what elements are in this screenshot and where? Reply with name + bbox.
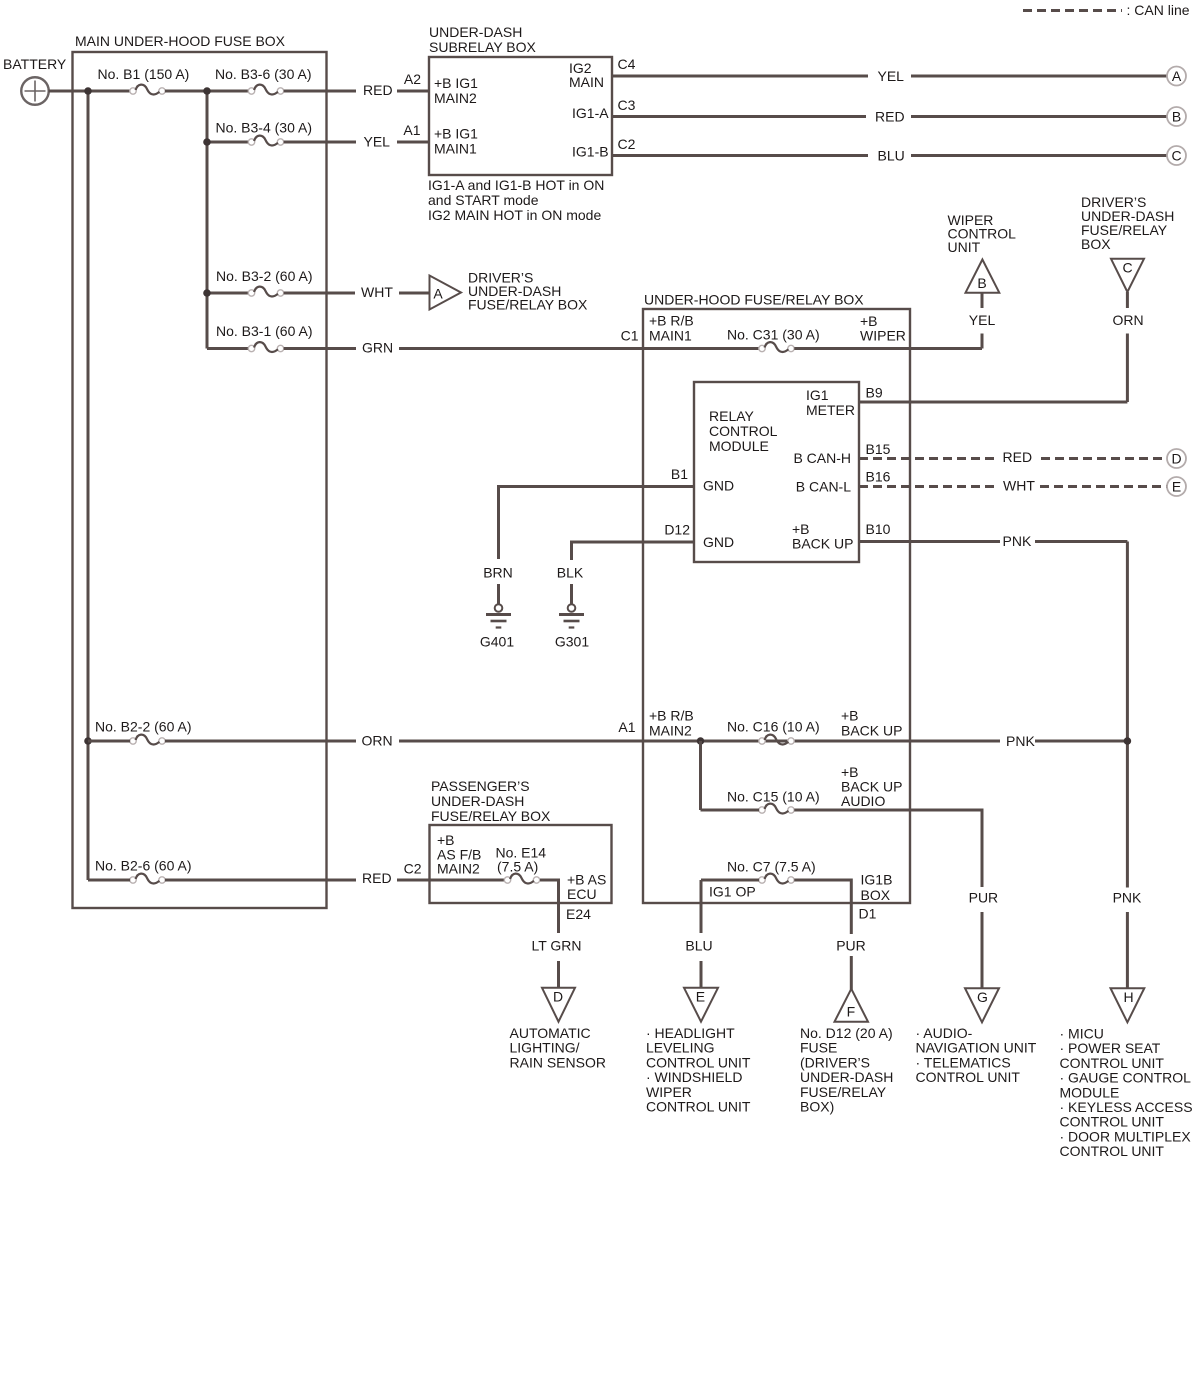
svg-text:C4: C4	[618, 56, 636, 72]
pin label IG1B BOX	[861, 872, 893, 904]
pin label +B IG1 MAIN2	[434, 75, 478, 106]
svg-text:G401: G401	[480, 634, 514, 650]
svg-text:B9: B9	[866, 385, 883, 401]
wire battery bus to B2-2	[88, 740, 130, 743]
svg-text:IG1-A and IG1-B HOT in ON: IG1-A and IG1-B HOT in ON	[428, 177, 604, 193]
wire battery to fuse B1	[49, 90, 130, 93]
svg-text:ORN: ORN	[1112, 312, 1143, 328]
wire C16 bus down to C15	[699, 741, 702, 810]
svg-text:B: B	[1172, 109, 1181, 125]
svg-text:B: B	[977, 275, 986, 291]
svg-text:PNK: PNK	[1006, 733, 1035, 749]
svg-text:B15: B15	[866, 441, 891, 457]
wire PNK to right bus	[1035, 540, 1127, 543]
svg-text:D: D	[553, 988, 563, 1004]
svg-text:CONTROL UNIT: CONTROL UNIT	[1060, 1143, 1165, 1159]
ground G301	[555, 604, 589, 649]
svg-text:· MICU: · MICU	[1060, 1026, 1104, 1042]
svg-text:CONTROL UNIT: CONTROL UNIT	[1060, 1055, 1165, 1071]
svg-text:C1: C1	[621, 328, 639, 344]
wire RED to fuse E14	[397, 879, 504, 882]
wire battery bus to B2-6	[88, 879, 130, 882]
svg-text:UNDER-DASH: UNDER-DASH	[431, 793, 524, 809]
wire YEL to connector A circle	[911, 75, 1167, 78]
svg-text:LT GRN: LT GRN	[531, 938, 581, 954]
wire B3-2 to WHT label	[284, 292, 355, 295]
svg-text:FUSE: FUSE	[800, 1040, 837, 1056]
wire PNK to right bus junction	[1035, 740, 1127, 743]
svg-text:A: A	[433, 286, 443, 302]
wire PUR to triangle G	[981, 912, 984, 988]
wire right bus down to H	[1126, 542, 1129, 888]
svg-text:BATTERY: BATTERY	[3, 56, 67, 72]
wire stub below triangle B	[981, 293, 984, 308]
wire ORN to PNK row	[399, 740, 1000, 743]
wire YEL to subrelay pin A1	[397, 141, 429, 144]
svg-text:G: G	[977, 989, 988, 1005]
fuse No. C31 (30 A)	[727, 327, 820, 352]
svg-text:WIPER: WIPER	[860, 328, 906, 344]
node junction battery bus	[84, 87, 92, 95]
svg-text:A: A	[1172, 68, 1182, 84]
svg-text:E: E	[696, 988, 705, 1004]
wire B CAN-H dashed to RED	[859, 457, 995, 460]
pin label IG2 MAIN	[569, 60, 604, 90]
svg-text:ECU: ECU	[567, 886, 597, 902]
svg-text:No. B3-2 (60 A): No. B3-2 (60 A)	[216, 268, 313, 284]
svg-text:PNK: PNK	[1113, 890, 1142, 906]
svg-text:· AUDIO-: · AUDIO-	[916, 1025, 973, 1041]
wire junction to fuse B3-4	[207, 141, 248, 144]
wire D12 GND	[572, 542, 695, 560]
node junction B2-2	[84, 737, 92, 745]
svg-text:RED: RED	[363, 82, 393, 98]
svg-text:RAIN SENSOR: RAIN SENSOR	[510, 1054, 606, 1070]
svg-text:BOX: BOX	[861, 887, 891, 903]
svg-text:B CAN-H: B CAN-H	[793, 450, 851, 466]
svg-text:· HEADLIGHT: · HEADLIGHT	[646, 1025, 735, 1041]
svg-text:D: D	[1171, 451, 1181, 467]
svg-text:MODULE: MODULE	[1060, 1084, 1120, 1100]
wire dashed RED to connector D circle	[1041, 457, 1167, 460]
svg-text:MAIN1: MAIN1	[649, 328, 692, 344]
svg-text:UNDER-DASH: UNDER-DASH	[800, 1069, 893, 1085]
wire B1 GND	[499, 487, 695, 560]
connector circle B	[1167, 107, 1186, 126]
wire B2-6 to RED	[165, 879, 356, 882]
svg-text:· POWER SEAT: · POWER SEAT	[1060, 1040, 1161, 1056]
svg-text:C2: C2	[618, 136, 636, 152]
wire RED to connector B circle	[911, 115, 1167, 118]
wire stub below triangle C	[1126, 292, 1129, 308]
wire E14 to E24	[540, 880, 559, 933]
svg-text:IG2 MAIN HOT in ON mode: IG2 MAIN HOT in ON mode	[428, 207, 601, 223]
svg-text:MAIN2: MAIN2	[434, 90, 477, 106]
svg-text:LIGHTING/: LIGHTING/	[510, 1040, 580, 1056]
svg-text:No. C7 (7.5 A): No. C7 (7.5 A)	[727, 859, 816, 875]
wire C15 row left	[701, 809, 760, 812]
fuse No. B2-6 (60 A)	[95, 858, 192, 884]
connector H triangle	[1111, 988, 1145, 1022]
connector F triangle	[835, 989, 869, 1022]
svg-text:+B R/B: +B R/B	[649, 708, 694, 724]
svg-text:B1: B1	[671, 466, 688, 482]
label MICU POWER SEAT etc	[1060, 1026, 1193, 1160]
svg-text:B10: B10	[866, 521, 891, 537]
wire C7 row right to D1	[794, 880, 851, 934]
label WIPER CONTROL UNIT	[948, 212, 1017, 255]
svg-text:WHT: WHT	[361, 284, 393, 300]
svg-text:· KEYLESS ACCESS: · KEYLESS ACCESS	[1060, 1099, 1193, 1115]
wire BLU to triangle E	[700, 961, 703, 988]
svg-text:UNIT: UNIT	[948, 239, 981, 255]
svg-text:BRN: BRN	[483, 565, 513, 581]
label AUTOMATIC LIGHTING/RAIN SENSOR	[510, 1025, 606, 1070]
svg-text:AUDIO: AUDIO	[841, 793, 885, 809]
connector B triangle	[966, 260, 1000, 293]
svg-text:IG1 OP: IG1 OP	[709, 884, 756, 900]
svg-text:NAVIGATION UNIT: NAVIGATION UNIT	[916, 1040, 1037, 1056]
fuse No. B3-4 (30 A)	[216, 120, 313, 146]
wire BLK to ground	[570, 584, 573, 604]
svg-text:BLU: BLU	[685, 938, 712, 954]
wire B3-6 to RED label	[284, 90, 356, 93]
wire B CAN-L dashed to WHT	[859, 485, 996, 488]
fuse No. B3-1 (60 A)	[216, 323, 313, 352]
svg-text:CONTROL UNIT: CONTROL UNIT	[1060, 1114, 1165, 1130]
svg-text:GRN: GRN	[362, 340, 393, 356]
wire B1 to B3-6	[165, 90, 248, 93]
node junction C16 bus	[697, 737, 705, 745]
svg-text:PNK: PNK	[1003, 533, 1032, 549]
svg-text:No. B2-2 (60 A): No. B2-2 (60 A)	[95, 719, 192, 735]
connector circle C	[1167, 146, 1186, 165]
svg-text:G301: G301	[555, 634, 589, 650]
wire B2-2 to ORN	[165, 740, 356, 743]
svg-text:CONTROL UNIT: CONTROL UNIT	[646, 1054, 751, 1070]
svg-text:IG1-B: IG1-B	[572, 144, 609, 160]
wire junction to fuse B3-1	[207, 347, 248, 350]
svg-text:RED: RED	[875, 109, 905, 125]
connector circle E	[1167, 477, 1186, 496]
svg-text:CONTROL: CONTROL	[709, 423, 778, 439]
svg-text:BLU: BLU	[878, 148, 905, 164]
fuse No. B3-2 (60 A)	[216, 268, 313, 296]
svg-text:C: C	[1122, 260, 1132, 276]
node junction B3 bus row1	[203, 87, 211, 95]
box MAIN UNDER-HOOD FUSE BOX	[73, 33, 327, 908]
svg-text:H: H	[1123, 989, 1133, 1005]
svg-text:YEL: YEL	[969, 312, 996, 328]
svg-text:· TELEMATICS: · TELEMATICS	[916, 1054, 1011, 1070]
connector D triangle	[542, 988, 575, 1022]
wire WHT to connector A	[399, 292, 429, 295]
svg-text:E24: E24	[566, 906, 591, 922]
svg-text:F: F	[847, 1003, 856, 1019]
battery BATTERY	[3, 56, 67, 105]
svg-text:· GAUGE CONTROL: · GAUGE CONTROL	[1060, 1070, 1192, 1086]
svg-text:UNDER-DASH: UNDER-DASH	[429, 24, 522, 40]
svg-text:BLK: BLK	[557, 565, 584, 581]
svg-text:BACK UP: BACK UP	[792, 536, 853, 552]
pin label +B BACK UP	[792, 521, 853, 552]
svg-text:+B: +B	[841, 708, 859, 724]
wire ORN down to B9 row	[1126, 334, 1129, 403]
svg-text:No. B1 (150 A): No. B1 (150 A)	[98, 66, 190, 82]
svg-text:CONTROL UNIT: CONTROL UNIT	[646, 1099, 751, 1115]
svg-text:No. B3-1 (60 A): No. B3-1 (60 A)	[216, 323, 313, 339]
svg-text:YEL: YEL	[364, 134, 391, 150]
connector G triangle	[965, 988, 999, 1022]
wire BRN to ground	[497, 584, 500, 604]
svg-text:IG1: IG1	[806, 387, 829, 403]
vertical bus at x=88	[87, 91, 90, 880]
svg-text:RED: RED	[362, 870, 392, 886]
svg-text:· WINDSHIELD: · WINDSHIELD	[646, 1069, 742, 1085]
svg-text:PUR: PUR	[836, 938, 866, 954]
svg-text:B16: B16	[866, 469, 891, 485]
svg-text:METER: METER	[806, 402, 855, 418]
svg-text:(7.5 A): (7.5 A)	[497, 859, 538, 875]
svg-text:UNDER-HOOD FUSE/RELAY BOX: UNDER-HOOD FUSE/RELAY BOX	[644, 292, 864, 308]
svg-text:MAIN2: MAIN2	[649, 723, 692, 739]
wire PUR to triangle F	[850, 956, 853, 990]
svg-text:A1: A1	[403, 122, 420, 138]
pin label +B IG1 MAIN1	[434, 126, 478, 157]
wire B3-4 to YEL label	[284, 141, 356, 144]
box UNDER-HOOD FUSE/RELAY BOX	[643, 292, 910, 904]
svg-text:No. C16 (10 A): No. C16 (10 A)	[727, 719, 820, 735]
pin label +B R/B MAIN1	[649, 313, 694, 344]
svg-text:SUBRELAY BOX: SUBRELAY BOX	[429, 39, 537, 55]
wire C3 to RED	[612, 115, 866, 118]
svg-text:+B IG1: +B IG1	[434, 75, 478, 91]
svg-text:YEL: YEL	[878, 68, 905, 84]
wire B10 to PNK	[859, 540, 1000, 543]
svg-text:: CAN line: : CAN line	[1127, 2, 1190, 18]
note IG1 hot modes	[428, 177, 604, 223]
label No. D12 (20 A) FUSE	[800, 1025, 893, 1115]
pin label +B BACK UP AUDIO	[841, 764, 902, 809]
svg-text:E: E	[1172, 479, 1181, 495]
pin label +B AS ECU	[567, 872, 606, 903]
svg-text:D1: D1	[859, 906, 877, 922]
svg-text:FUSE/RELAY: FUSE/RELAY	[800, 1084, 887, 1100]
svg-text:No. C15 (10 A): No. C15 (10 A)	[727, 789, 820, 805]
pin label +B R/B MAIN2	[649, 708, 694, 739]
svg-text:No. B2-6 (60 A): No. B2-6 (60 A)	[95, 858, 192, 874]
svg-text:FUSE/RELAY BOX: FUSE/RELAY BOX	[468, 297, 588, 313]
svg-text:PASSENGER’S: PASSENGER’S	[431, 778, 530, 794]
svg-text:BOX: BOX	[1081, 236, 1111, 252]
fuse No. C16 (10 A)	[727, 719, 820, 745]
fuse B1 No. B1 (150 A)	[98, 66, 190, 94]
fuse No. B3-6 (30 A)	[215, 66, 312, 94]
svg-text:B CAN-L: B CAN-L	[796, 479, 851, 495]
svg-text:MAIN1: MAIN1	[434, 141, 477, 157]
svg-text:RELAY: RELAY	[709, 408, 755, 424]
node junction B3 bus row2	[203, 138, 211, 146]
pin label +B BACK UP (C16)	[841, 708, 902, 739]
connector A triangle	[430, 276, 462, 310]
vertical bus at x=207	[206, 91, 209, 349]
label AUDIO-NAVIGATION TELEMATICS	[916, 1025, 1037, 1085]
wire dashed WHT to connector E circle	[1040, 485, 1167, 488]
box PASSENGER'S UNDER-DASH FUSE/RELAY BOX	[430, 778, 612, 903]
fuse No. E14 (7.5 A)	[496, 845, 547, 884]
svg-text:C2: C2	[404, 861, 422, 877]
svg-text:No. B3-6 (30 A): No. B3-6 (30 A)	[215, 66, 312, 82]
wire GRN to under-hood box C1 and fuse C31	[399, 347, 759, 350]
svg-text:FUSE/RELAY BOX: FUSE/RELAY BOX	[431, 808, 551, 824]
svg-text:ORN: ORN	[362, 733, 393, 749]
fuse No. B2-2 (60 A)	[95, 719, 192, 745]
ground G401	[480, 604, 514, 649]
wire BLU to connector C circle	[911, 154, 1167, 157]
node junction right bus	[1124, 737, 1132, 745]
wire IG1 OP down	[700, 880, 703, 933]
svg-text:C3: C3	[618, 97, 636, 113]
wire RED to subrelay pin A2	[397, 90, 429, 93]
svg-text:No. B3-4 (30 A): No. B3-4 (30 A)	[216, 120, 313, 136]
wire C31 to wiper control unit	[794, 347, 982, 350]
svg-text:MODULE: MODULE	[709, 438, 769, 454]
box UNDER-DASH SUBRELAY BOX	[429, 24, 612, 175]
fuse No. C15 (10 A)	[727, 789, 820, 814]
box RELAY CONTROL MODULE	[694, 382, 859, 562]
svg-text:(DRIVER’S: (DRIVER’S	[800, 1054, 870, 1070]
svg-text:RED: RED	[1003, 449, 1033, 465]
connector circle D	[1167, 449, 1186, 468]
wire C2 to BLU	[612, 154, 868, 157]
svg-text:No. C31 (30 A): No. C31 (30 A)	[727, 327, 820, 343]
wire PNK to triangle H	[1126, 912, 1129, 988]
pin label +B AS F/B MAIN2	[437, 832, 481, 877]
svg-text:MAIN2: MAIN2	[437, 861, 480, 877]
svg-text:AUTOMATIC: AUTOMATIC	[510, 1025, 591, 1041]
CAN line legend	[1023, 2, 1190, 18]
svg-text:GND: GND	[703, 478, 734, 494]
svg-text:IG1-A: IG1-A	[572, 105, 609, 121]
label DRIVER'S UNDER-DASH FUSE/RELAY BOX (C)	[1081, 194, 1174, 252]
svg-text:GND: GND	[703, 534, 734, 550]
fuse No. C7 (7.5 A)	[727, 859, 816, 884]
svg-text:and START mode: and START mode	[428, 192, 539, 208]
svg-text:IG1B: IG1B	[861, 872, 893, 888]
connector E triangle	[684, 988, 718, 1022]
pin label IG1 METER	[806, 387, 855, 418]
svg-text:MAIN: MAIN	[569, 74, 604, 90]
wire B9 row	[859, 401, 1127, 404]
svg-text:LEVELING: LEVELING	[646, 1040, 714, 1056]
label DRIVER'S UNDER-DASH FUSE/RELAY BOX (A)	[468, 270, 588, 313]
svg-text:+B R/B: +B R/B	[649, 313, 694, 329]
svg-text:No. D12 (20 A): No. D12 (20 A)	[800, 1025, 893, 1041]
svg-text:C: C	[1171, 148, 1181, 164]
svg-text:WIPER: WIPER	[646, 1084, 692, 1100]
connector circle A	[1167, 67, 1186, 86]
svg-text:BACK UP: BACK UP	[841, 723, 902, 739]
svg-text:CONTROL UNIT: CONTROL UNIT	[916, 1069, 1021, 1085]
wire B3-1 to GRN label	[284, 347, 356, 350]
svg-text:D12: D12	[664, 522, 690, 538]
connector C triangle	[1111, 259, 1144, 292]
label HEADLIGHT LEVELING / WINDSHIELD WIPER	[646, 1025, 751, 1115]
wire LT GRN to triangle D	[557, 961, 560, 988]
wire C7 row left	[701, 879, 759, 882]
svg-text:+B IG1: +B IG1	[434, 126, 478, 142]
svg-text:A1: A1	[618, 719, 635, 735]
wire C15 to audio bus	[794, 810, 982, 887]
svg-text:WHT: WHT	[1003, 478, 1035, 494]
svg-text:A2: A2	[404, 71, 421, 87]
svg-text:· DOOR MULTIPLEX: · DOOR MULTIPLEX	[1060, 1128, 1192, 1144]
wire riser to YEL wiper	[981, 334, 984, 349]
pin label +B WIPER	[860, 313, 906, 344]
wire C4 to YEL	[612, 75, 868, 78]
svg-text:BOX): BOX)	[800, 1099, 834, 1115]
svg-text:PUR: PUR	[969, 890, 999, 906]
node junction B3 bus row3	[203, 289, 211, 297]
wire junction to fuse B3-2	[207, 292, 248, 295]
svg-text:MAIN UNDER-HOOD FUSE BOX: MAIN UNDER-HOOD FUSE BOX	[75, 33, 286, 49]
